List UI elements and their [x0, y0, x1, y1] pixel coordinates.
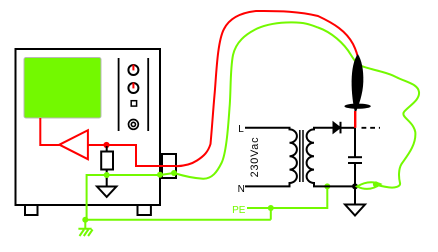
svg-text:230Vac: 230Vac: [249, 137, 261, 178]
svg-text:PE: PE: [232, 205, 246, 216]
svg-text:N: N: [238, 184, 245, 195]
svg-text:L: L: [238, 124, 244, 135]
